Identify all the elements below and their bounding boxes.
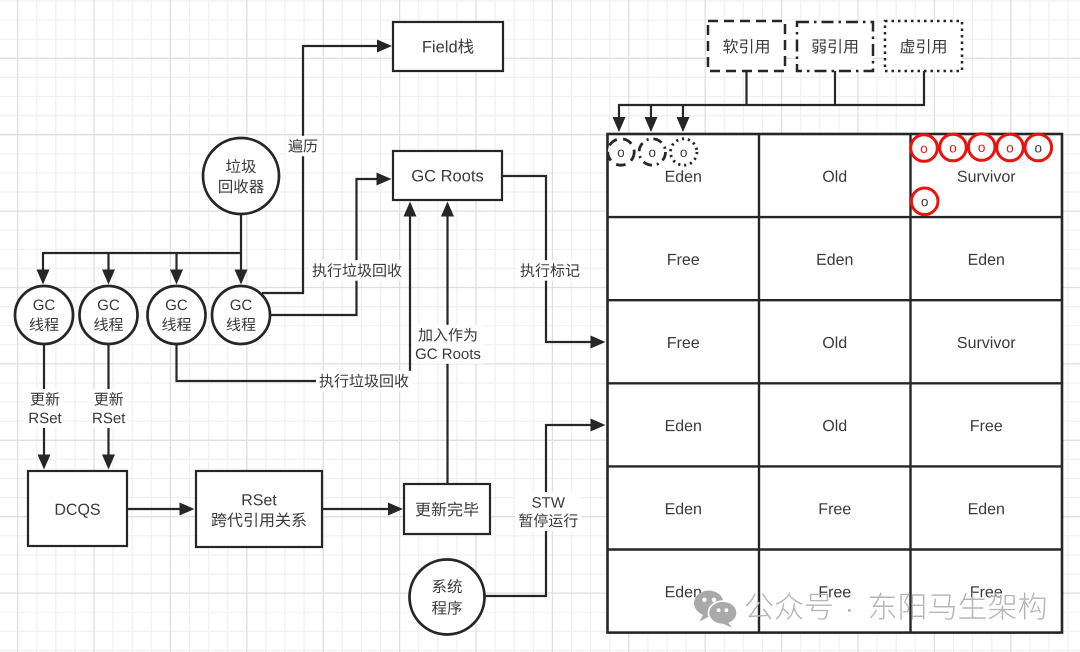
circle GC线程1 <box>15 286 73 344</box>
label 更新RSet left <box>25 389 64 428</box>
box RSet跨代引用关系 <box>196 471 322 547</box>
heap region table frame <box>608 134 1063 633</box>
wire drop to Eden obj3 <box>682 105 684 119</box>
wire 垃圾回收器 to GC threads trunk <box>43 214 241 253</box>
dashdot box 弱引用 <box>797 22 873 71</box>
red object circle 2 in Survivor <box>940 134 967 161</box>
wire 更新完毕 to GC Roots (加入作为GC Roots) <box>446 214 448 484</box>
circle GC线程2 <box>80 286 138 344</box>
wire GC线程4 to Field栈 (遍历 edge) <box>262 46 379 293</box>
box DCQS <box>28 471 127 546</box>
wire drop to GC线程2 <box>107 253 109 272</box>
wire GC线程2 to DCQS (更新RSet) <box>107 344 109 457</box>
dashed box 软引用 <box>708 21 785 71</box>
arrow DCQS to RSet box <box>127 508 182 510</box>
arrow RSet box to 更新完毕 <box>322 508 391 510</box>
wire drop to GC线程3 <box>175 253 177 272</box>
label 执行垃圾回收 upper <box>309 260 405 281</box>
heap table row dividers <box>608 216 1063 218</box>
circle GC线程3 <box>148 286 206 344</box>
heap region cell labels <box>666 171 675 182</box>
box GC Roots <box>393 151 502 200</box>
object circle dashed in Eden <box>608 139 634 165</box>
red object circle 4 in Survivor <box>997 134 1024 161</box>
red object circle 1 in Survivor <box>911 135 938 162</box>
object circle dashdot in Eden <box>639 139 665 165</box>
wire 引用 boxes trunk <box>619 71 924 119</box>
red object circle 5 in Survivor <box>1025 134 1052 161</box>
red object circle 6 in Survivor <box>911 188 938 215</box>
label 更新RSet right <box>89 389 128 428</box>
object circle dotted in Eden <box>671 139 697 165</box>
arrowhead into Eden obj1 <box>613 117 626 132</box>
wire drop to GC线程4 <box>240 253 242 272</box>
heap table column dividers <box>758 134 760 633</box>
wire GC线程1 to DCQS (更新RSet) <box>43 344 45 457</box>
label 执行垃圾回收 lower <box>316 371 412 392</box>
label STW暂停运行 <box>515 492 581 531</box>
label 加入作为GC Roots <box>412 325 484 364</box>
wire GC线程4 to GC Roots (执行垃圾回收 upper) <box>270 179 379 315</box>
label 执行标记 <box>517 260 583 281</box>
wire GC Roots to heap row3 (执行标记) <box>502 176 593 342</box>
wire 弱引用 drop <box>834 71 836 105</box>
watermark text 公众号·东阳马生架构 <box>746 593 773 619</box>
wire GC线程3 to GC Roots (执行垃圾回收 lower) <box>177 214 411 381</box>
wire 软引用 drop <box>745 71 747 105</box>
dotted box 虚引用 <box>885 21 962 71</box>
label 遍历 <box>285 136 321 157</box>
circle 垃圾回收器 <box>203 138 279 214</box>
wire drop to GC线程1 <box>42 252 44 272</box>
wire drop to Eden obj2 <box>650 105 652 119</box>
box 更新完毕 <box>404 484 490 534</box>
red object circle 3 in Survivor <box>968 134 995 161</box>
box Field栈 <box>393 22 503 71</box>
circle GC线程4 <box>212 286 270 344</box>
watermark wechat icon <box>694 591 738 628</box>
circle 系统程序 <box>410 560 485 635</box>
wire 系统程序 to heap row4 (STW) <box>485 425 593 596</box>
